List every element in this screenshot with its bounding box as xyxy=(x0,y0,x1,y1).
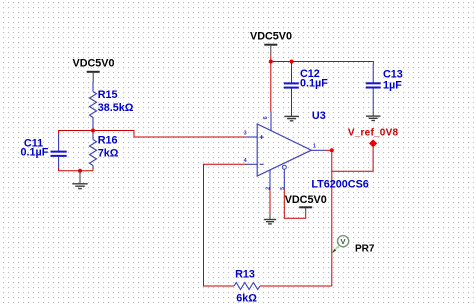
resistor R15 38.5kOhm xyxy=(90,82,134,127)
wire R15 to junction xyxy=(92,127,94,131)
svg-text:R16: R16 xyxy=(98,134,118,146)
power VDC5V0 (bottom, SHDN pull-up) xyxy=(285,194,327,213)
op-amp pin 1 stub (output) xyxy=(311,149,326,151)
node V_ref_0V8 (net label + diamond) xyxy=(348,127,399,147)
svg-text:6kΩ: 6kΩ xyxy=(236,293,257,305)
wire pin1 to output node xyxy=(326,149,332,151)
svg-text:5: 5 xyxy=(280,187,286,190)
op-amp pin 2 lead (V-) xyxy=(269,170,271,190)
wire junction to op-amp pin3 (with jog) xyxy=(93,131,245,138)
svg-text:R13: R13 xyxy=(235,269,255,281)
svg-text:VDC5V0: VDC5V0 xyxy=(73,58,115,70)
junction dot (R15/R16/C11/pin3 node) xyxy=(91,129,95,133)
svg-text:PR7: PR7 xyxy=(355,243,375,254)
wire pin4 feedback (left and down) xyxy=(204,164,246,286)
svg-text:1µF: 1µF xyxy=(383,79,402,91)
svg-text:V_ref_0V8: V_ref_0V8 xyxy=(348,127,399,138)
svg-text:6: 6 xyxy=(263,116,269,119)
wire pin5 to VDC5V0 (bottom) xyxy=(284,190,305,218)
wire rail down to pin 6 xyxy=(270,62,272,112)
capacitor C11 0.1uF xyxy=(21,134,67,168)
op-amp pin 6 lead (V+) xyxy=(270,112,272,131)
svg-text:1: 1 xyxy=(313,144,316,150)
junction dot (ground tap on bottom wire) xyxy=(78,169,82,173)
wire R13 right side to output column xyxy=(260,285,332,287)
svg-text:R15: R15 xyxy=(98,89,118,101)
svg-text:7kΩ: 7kΩ xyxy=(98,148,119,160)
svg-text:V: V xyxy=(341,237,346,246)
junction dot (rail at C12) xyxy=(290,60,294,64)
wire pin2 down to ground xyxy=(269,190,271,213)
wire junction to C11 top xyxy=(59,131,93,135)
svg-text:VDC5V0: VDC5V0 xyxy=(285,194,327,206)
op-amp pin 4 stub xyxy=(245,163,257,165)
probe PR7 (voltage probe) xyxy=(332,236,375,255)
svg-text:LT6200CS6: LT6200CS6 xyxy=(311,179,368,191)
resistor R13 6kOhm xyxy=(234,269,260,305)
ground (divider bottom) xyxy=(72,171,87,189)
svg-text:VDC5V0: VDC5V0 xyxy=(250,31,292,43)
wire top rail (V+ to C12 C13) xyxy=(271,62,374,65)
op-amp pin 3 stub xyxy=(245,136,257,138)
svg-text:U3: U3 xyxy=(312,110,326,122)
svg-text:2: 2 xyxy=(266,187,272,190)
capacitor C13 1uF xyxy=(366,65,403,110)
power VDC5V0 (left, feeds R15) xyxy=(73,58,115,83)
wire C11 bottom to R16 bottom xyxy=(59,168,93,171)
junction dot (output node) xyxy=(330,148,334,152)
power VDC5V0 (top rail) xyxy=(250,31,292,62)
svg-text:3: 3 xyxy=(244,131,247,137)
ground (op-amp V-) xyxy=(264,213,276,224)
wire output node down to feedback bottom xyxy=(331,150,333,286)
capacitor C12 0.1uF xyxy=(284,62,328,110)
op-amp pin 5 lead (SHDN) with bubble xyxy=(282,165,286,190)
resistor R16 7kOhm xyxy=(90,131,119,171)
junction dot (rail at pin6 column) xyxy=(269,60,273,64)
ground (C12) xyxy=(284,110,299,121)
svg-text:38.5kΩ: 38.5kΩ xyxy=(98,102,134,114)
op-amp U3 LT6200CS6 xyxy=(257,110,326,176)
svg-text:0.1µF: 0.1µF xyxy=(21,146,49,158)
svg-text:0.1µF: 0.1µF xyxy=(300,78,328,90)
wire branch to V_ref_0V8 xyxy=(332,147,373,171)
ground (C13) xyxy=(366,110,381,121)
